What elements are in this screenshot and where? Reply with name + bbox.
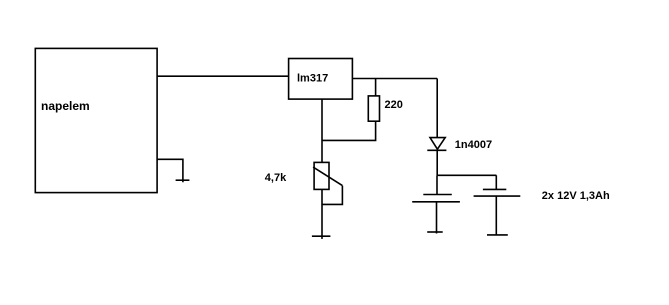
svg-text:napelem: napelem <box>41 99 90 113</box>
diode D1 1n4007 triangle <box>430 138 445 150</box>
battery B1 top lead <box>436 175 438 194</box>
battery B2 top lead <box>495 175 497 189</box>
svg-text:2x 12V 1,3Ah: 2x 12V 1,3Ah <box>542 190 610 202</box>
wire napelem negative stub <box>157 159 183 182</box>
wire lm317 adj down to potentiometer <box>321 99 323 162</box>
wire diode to battery bus <box>436 150 438 175</box>
wire node A down to diode D1 <box>436 79 438 138</box>
value label 1n4007 <box>455 139 492 151</box>
ground under battery B1 <box>427 231 443 233</box>
svg-text:1n4007: 1n4007 <box>455 139 492 151</box>
label napelem <box>41 99 90 113</box>
wire resistor 220 bottom to adj net <box>322 121 376 140</box>
resistor 220 <box>368 96 379 121</box>
wire wiper to bottom terminal <box>322 186 342 205</box>
label lm317 <box>297 73 328 85</box>
svg-text:lm317: lm317 <box>297 73 328 85</box>
battery B1 bottom lead <box>436 202 438 234</box>
diode D1 cathode bar <box>427 149 446 151</box>
solar panel napelem box <box>35 48 157 192</box>
ground bar under battery B2 <box>487 234 508 236</box>
battery B1 long plate <box>412 201 460 203</box>
battery B1 short plate <box>423 194 452 196</box>
potentiometer wiper diagonal <box>313 167 342 186</box>
ground under potentiometer <box>312 235 331 237</box>
svg-text:4,7k: 4,7k <box>265 172 287 184</box>
value label 4,7k <box>265 172 287 184</box>
value label 220 <box>385 99 403 111</box>
ground at napelem stub <box>176 179 190 181</box>
wire napelem to lm317 input <box>157 75 289 77</box>
regulator U1 lm317 box <box>289 59 353 100</box>
wire battery bus horizontal <box>437 174 496 176</box>
potentiometer 4,7k body <box>314 162 329 189</box>
battery B2 long plate <box>474 195 521 197</box>
svg-text:220: 220 <box>385 99 403 111</box>
wire lm317 output to node A <box>352 78 437 80</box>
wire potentiometer bottom to ground <box>321 189 323 239</box>
value label 2x 12V 1,3Ah <box>542 190 610 202</box>
wire node to resistor 220 top <box>375 79 377 97</box>
battery B2 short plate <box>483 188 506 190</box>
battery B2 bottom lead <box>495 196 497 235</box>
